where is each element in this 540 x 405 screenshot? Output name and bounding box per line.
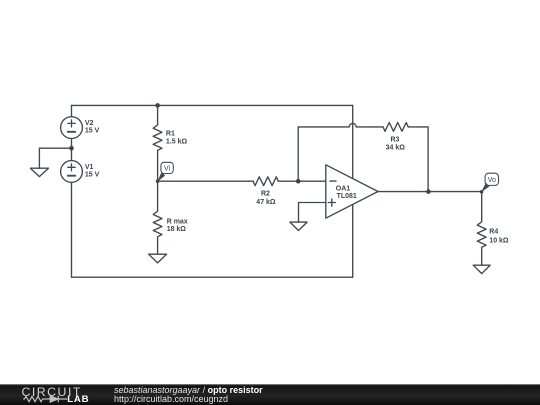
node Vi label box: [157, 162, 173, 181]
wire V1 bottom to bottom rail: [71, 182, 73, 277]
voltage source V2: [61, 117, 83, 139]
wire left edge top (V2 to top rail): [71, 105, 73, 116]
junction dot feedback/output: [426, 189, 431, 194]
ground (below R4): [473, 265, 490, 273]
CircuitLab logo: [22, 385, 82, 399]
junction dot feedback/inverting input: [296, 179, 301, 184]
svg-text:1.5 kΩ: 1.5 kΩ: [166, 139, 188, 146]
svg-text:R4: R4: [489, 229, 498, 236]
wire V2 to V1: [71, 139, 73, 161]
svg-text:15 V: 15 V: [85, 127, 100, 134]
wire feedback top with hop over power rail: [298, 123, 383, 126]
footer url line: [114, 394, 228, 404]
resistor R max: [153, 181, 162, 254]
wire to left ground: [39, 148, 71, 168]
svg-text:Vo: Vo: [488, 177, 496, 184]
junction dot Vi node: [156, 179, 160, 183]
svg-text:R2: R2: [261, 191, 270, 198]
wire bottom rail: [72, 276, 353, 278]
ground (op-amp + input): [290, 222, 307, 230]
svg-text:10 kΩ: 10 kΩ: [489, 238, 509, 245]
svg-text:Vi: Vi: [164, 166, 171, 173]
svg-text:R3: R3: [391, 136, 400, 143]
svg-text:R max: R max: [167, 218, 188, 225]
op-amp inverting input marker: [330, 180, 336, 182]
wire op-amp output to Vo: [378, 191, 482, 193]
node Vo label box: [481, 173, 498, 192]
junction dot supply midpoint: [69, 146, 74, 151]
wire R3 to output: [408, 127, 428, 192]
svg-text:V2: V2: [85, 120, 94, 127]
wire feedback left leg: [297, 127, 299, 181]
voltage source V1: [61, 161, 83, 183]
junction dot R1/top rail: [155, 103, 160, 108]
svg-text:34 kΩ: 34 kΩ: [386, 145, 406, 152]
logo LAB: [67, 394, 89, 405]
resistor R1: [153, 105, 162, 181]
resistor R3: [383, 123, 408, 132]
footer title line: [114, 385, 263, 395]
resistor R2: [253, 177, 278, 186]
wire right power rail: [352, 105, 354, 277]
op-amp OA1 body: [326, 165, 378, 218]
logo resistor-diode line: [23, 396, 67, 401]
svg-text:TL081: TL081: [337, 193, 357, 200]
wire Vi node to R2: [158, 180, 254, 182]
wire R2 to op-amp inverting input: [278, 180, 326, 182]
footer bar: [0, 384, 540, 405]
wire top rail +15V: [72, 104, 353, 106]
svg-text:15 V: 15 V: [85, 172, 100, 179]
svg-text:OA1: OA1: [336, 186, 351, 193]
op-amp non-inverting input marker: [328, 199, 335, 206]
wire non-inverting input to ground: [299, 203, 326, 223]
svg-text:R1: R1: [166, 130, 175, 137]
svg-text:18 kΩ: 18 kΩ: [167, 226, 187, 233]
svg-text:V1: V1: [85, 164, 94, 171]
ground (below R max): [149, 254, 167, 263]
resistor R4: [477, 192, 486, 266]
junction dot Vo node: [480, 190, 484, 194]
svg-text:47 kΩ: 47 kΩ: [256, 199, 276, 206]
ground (left, supply midpoint): [30, 168, 48, 176]
